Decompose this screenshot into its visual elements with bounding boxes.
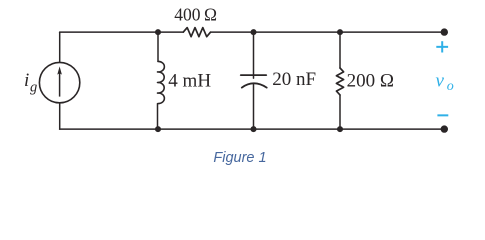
svg-text:v: v [436, 70, 445, 91]
junction node top of 200ohm [337, 29, 343, 35]
junction node bottom of inductor [155, 126, 161, 132]
minus sign [437, 114, 448, 116]
capacitor C bottom curved plate [242, 83, 267, 87]
wire left branch upper [59, 32, 61, 62]
wire capacitor branch lower [253, 83, 255, 129]
wire inductor branch lower [157, 104, 159, 130]
junction node top of capacitor [251, 29, 257, 35]
svg-text:Figure 1: Figure 1 [213, 150, 266, 166]
terminal node top right [441, 28, 448, 35]
svg-text:i: i [24, 70, 29, 91]
svg-text:20 nF: 20 nF [272, 69, 316, 90]
wire bottom rail [60, 128, 445, 130]
svg-text:g: g [30, 80, 37, 96]
junction node top of inductor [155, 29, 161, 35]
wire top rail left segment [60, 31, 184, 33]
resistor R 200ohm zigzag [336, 68, 343, 95]
svg-text:200 Ω: 200 Ω [347, 71, 394, 92]
wire top rail right segment [211, 31, 445, 33]
current source arrow [57, 66, 62, 96]
svg-text:4 mH: 4 mH [168, 70, 211, 91]
wire 200ohm branch upper [339, 32, 341, 68]
wire 200ohm branch lower [339, 95, 341, 129]
wire left branch lower [59, 103, 61, 129]
current source i_g circle [39, 62, 79, 102]
wire capacitor branch upper [253, 32, 255, 78]
wire inductor branch upper [157, 32, 159, 61]
capacitor C top plate [241, 74, 266, 76]
svg-text:o: o [447, 79, 454, 94]
terminal node bottom right [441, 125, 448, 132]
junction node bottom of 200ohm [337, 126, 343, 132]
svg-text:400 Ω: 400 Ω [174, 5, 217, 25]
plus sign [436, 41, 448, 52]
inductor L coil [158, 61, 165, 103]
junction node bottom of capacitor [251, 126, 257, 132]
resistor R 400ohm zigzag [183, 28, 210, 37]
